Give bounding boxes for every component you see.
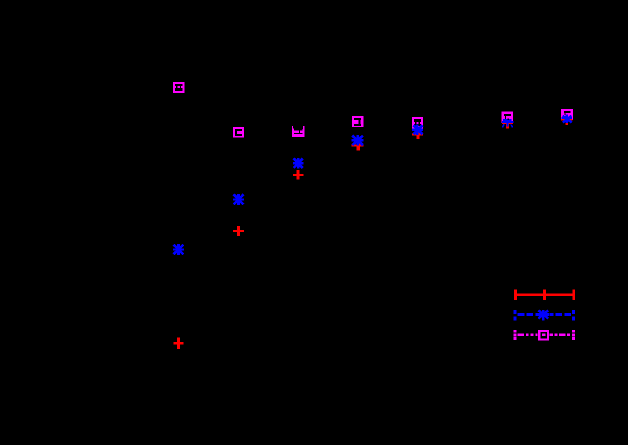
series1 point x7 magenta square xyxy=(561,109,573,120)
series3 point x6 red plus under blue xyxy=(502,122,513,129)
legend entry2 blue dashed sample xyxy=(514,310,575,320)
series2 point x1 blue asterisk xyxy=(173,244,184,255)
black series overpaint notch x6 xyxy=(508,119,510,121)
series3 point x2 red plus xyxy=(233,226,244,236)
legend entry2 blue asterisk marker xyxy=(538,310,549,320)
series3 point x1 red plus xyxy=(173,338,183,350)
series3 point x5 red plus under blue xyxy=(412,129,423,139)
legend entry1 red errorbar sample xyxy=(514,290,575,300)
series1 point x4 magenta square xyxy=(352,116,364,127)
series1 point x1 magenta square xyxy=(173,82,184,93)
legend entry3 magenta square marker xyxy=(538,330,549,341)
series2 point x7 blue asterisk xyxy=(562,115,572,123)
series3 point x7 red plus under blue xyxy=(561,115,573,125)
series1 point x6 magenta square xyxy=(502,112,513,124)
series3 point x3 red plus xyxy=(293,170,303,179)
series2 point x2 blue asterisk xyxy=(233,194,244,205)
series2 point x6 blue asterisk xyxy=(502,119,514,128)
series1 point x5 magenta square xyxy=(412,117,423,128)
series2 point x3 blue asterisk xyxy=(293,158,303,169)
series1 point x3 magenta square partial xyxy=(292,126,305,137)
series1 point x2 magenta square xyxy=(233,127,244,138)
series2 point x4 blue asterisk xyxy=(352,135,364,146)
series3 point x4 red plus under blue xyxy=(352,140,364,150)
legend entry3 magenta dashdot sample xyxy=(514,330,575,340)
series2 point x5 blue asterisk xyxy=(412,124,423,135)
